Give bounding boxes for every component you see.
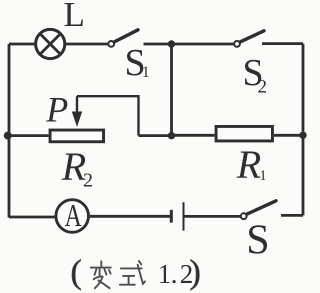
wire bottom: left corner to ammeter xyxy=(9,216,55,219)
svg-text:L: L xyxy=(64,0,85,34)
lamp L xyxy=(36,29,65,58)
wire right side xyxy=(302,44,305,216)
switch S2 (open) xyxy=(234,31,264,47)
wire left side xyxy=(8,44,11,218)
node D junction dot on left wire xyxy=(4,132,12,140)
battery BT1 negative plate (short) xyxy=(170,210,173,223)
svg-text:S: S xyxy=(246,218,269,264)
svg-text:): ) xyxy=(190,254,201,291)
wire top: left corner to lamp xyxy=(9,43,35,46)
wire ammeter to battery xyxy=(90,215,170,218)
slider P arrow xyxy=(72,96,82,127)
node A junction dot xyxy=(168,40,175,47)
switch S (open) xyxy=(241,201,276,219)
wire R1 to node C xyxy=(274,134,303,137)
label S (switch) xyxy=(246,218,269,264)
svg-text:1: 1 xyxy=(259,168,267,184)
wire S to bottom-right corner xyxy=(281,214,303,217)
svg-text:A: A xyxy=(65,197,82,233)
resistor R1 body xyxy=(216,126,272,141)
wire S1 to node A xyxy=(144,43,172,46)
hanzi 式 xyxy=(120,261,145,285)
battery BT1 positive plate (long) xyxy=(183,202,185,230)
rheostat R2 body xyxy=(50,130,104,142)
label R2 (rheostat) xyxy=(61,144,93,192)
svg-text:R: R xyxy=(236,142,261,187)
node B junction dot xyxy=(168,132,175,139)
svg-text:(: ( xyxy=(71,254,82,291)
ammeter A xyxy=(56,200,89,233)
svg-text:2: 2 xyxy=(258,77,268,98)
svg-text:1: 1 xyxy=(142,64,150,81)
switch S1 (open) xyxy=(108,30,138,47)
label R1 (resistor) xyxy=(236,142,267,187)
wire left to rheostat R2 xyxy=(9,134,49,137)
svg-text:1: 1 xyxy=(158,259,172,289)
wire middle vertical (node A to node B) xyxy=(170,44,173,136)
hanzi 变 xyxy=(91,261,111,288)
wire battery to switch S xyxy=(184,215,241,218)
wire S2 to top-right corner xyxy=(262,42,303,45)
label S2 (switch) xyxy=(243,52,268,97)
label S1 (switch) xyxy=(125,42,150,84)
caption (变式 1.2) xyxy=(71,254,201,291)
wire slider P to node B xyxy=(77,96,139,135)
label A (ammeter) xyxy=(65,197,82,233)
wire node A to switch S2 xyxy=(172,43,234,46)
node C junction dot on right wire xyxy=(299,132,306,139)
wire node B to resistor R1 xyxy=(172,134,215,137)
label P (slider) xyxy=(45,89,68,129)
svg-text:P: P xyxy=(45,89,68,129)
svg-text:2: 2 xyxy=(83,170,93,192)
wire lamp to switch S1 xyxy=(66,43,108,46)
svg-text:.: . xyxy=(171,259,178,289)
wire slider drop to node B junction xyxy=(139,134,172,137)
label L (lamp) xyxy=(64,0,85,34)
